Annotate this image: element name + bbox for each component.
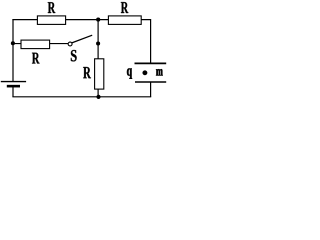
wire: middle vertical upper (node to top rail) xyxy=(97,20,99,59)
resistor R3 box (middle branch) xyxy=(21,40,50,49)
wire: top horizontal xyxy=(12,19,150,21)
wire: left vertical below battery xyxy=(12,86,14,97)
label R (top-left resistor) xyxy=(48,2,56,13)
wire: capacitor bottom to bottom rail xyxy=(150,82,152,97)
battery E: long positive plate xyxy=(1,81,26,83)
junction node: bottom rail xyxy=(96,95,100,99)
wire: bottom horizontal xyxy=(12,96,151,98)
resistor R2 box (top right) xyxy=(108,16,141,25)
wire: right vertical to capacitor xyxy=(150,19,152,63)
label S (switch) xyxy=(71,50,77,61)
charged particle between plates xyxy=(142,70,147,75)
wire: middle vertical lower (resistor to bottom rail) xyxy=(97,89,99,97)
label m (mass) xyxy=(156,69,163,75)
resistor R4 box (vertical) xyxy=(95,59,104,89)
wire: middle branch horizontal xyxy=(13,43,68,45)
junction node: top rail xyxy=(96,18,100,22)
background xyxy=(0,0,168,111)
label R (top-right resistor) xyxy=(121,2,128,13)
switch S: pivot circle xyxy=(68,42,72,46)
label q (charge) xyxy=(127,68,132,78)
capacitor: top plate xyxy=(135,62,167,64)
label R (middle resistor) xyxy=(32,53,40,64)
label R (vertical resistor) xyxy=(83,67,91,78)
junction node: left rail middle branch xyxy=(11,41,15,45)
wire: left vertical (battery top side) xyxy=(12,19,14,81)
junction node: middle branch right xyxy=(96,42,100,46)
resistor R1 box (top left) xyxy=(37,16,65,25)
capacitor: bottom plate xyxy=(135,81,166,83)
battery E: short thick negative plate xyxy=(7,85,20,88)
switch S: open blade xyxy=(72,35,92,43)
